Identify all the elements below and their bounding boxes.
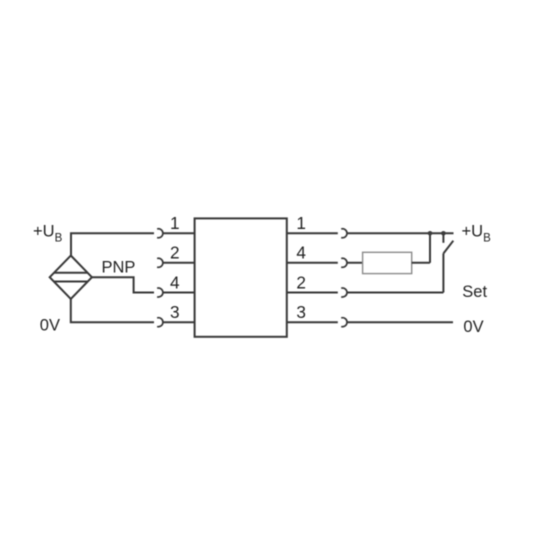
wire pin2 to Set xyxy=(347,292,444,294)
wire pin3 to 0V right xyxy=(347,321,453,323)
switch lever S1 xyxy=(443,241,453,254)
connector socket pin4 right xyxy=(341,258,347,267)
wire pin1 to +UB right xyxy=(347,232,454,234)
svg-text:3: 3 xyxy=(296,302,306,322)
wire PNP output to pin4 connector xyxy=(92,277,154,292)
wire connector to box pin3 xyxy=(163,321,195,323)
wire connector to box pin1 xyxy=(163,232,195,234)
connector socket pin3 right xyxy=(341,318,347,327)
wire connector to box pin2 xyxy=(163,262,195,264)
connector socket pin1 right xyxy=(341,229,347,238)
sensor symbol (diamond) xyxy=(50,256,92,299)
sensor internal chord lower xyxy=(54,281,87,283)
svg-text:0V: 0V xyxy=(40,317,60,335)
svg-text:0V: 0V xyxy=(463,318,483,336)
connector socket pin2 left xyxy=(157,258,163,267)
svg-text:1: 1 xyxy=(296,213,306,233)
svg-text:4: 4 xyxy=(296,243,306,263)
wire sensor to 0V xyxy=(71,299,154,322)
amplifier box U1 xyxy=(195,218,287,336)
wire box to connector pin2 right xyxy=(287,292,338,294)
svg-text:+UB: +UB xyxy=(462,223,492,245)
wire resistor to riser xyxy=(412,262,430,264)
svg-text:+UB: +UB xyxy=(33,223,63,245)
connector socket pin4 left xyxy=(157,288,163,297)
wire box to connector pin3 right xyxy=(287,321,338,323)
svg-text:PNP: PNP xyxy=(102,259,136,277)
wire Set riser xyxy=(442,254,444,293)
svg-text:3: 3 xyxy=(170,302,180,322)
junction dot A xyxy=(428,231,433,236)
connector socket pin1 left xyxy=(157,229,163,238)
svg-text:2: 2 xyxy=(296,272,306,292)
connector socket pin3 left xyxy=(157,318,163,327)
sensor internal chord upper xyxy=(54,272,87,274)
svg-text:1: 1 xyxy=(170,213,180,233)
switch fixed contact xyxy=(442,233,444,243)
svg-text:Set: Set xyxy=(462,283,487,301)
junction dot B xyxy=(441,231,446,236)
svg-text:4: 4 xyxy=(170,272,180,292)
wire from +UB to pin1 connector xyxy=(71,233,154,256)
resistor R1 xyxy=(363,252,412,273)
wire box to connector pin4 right xyxy=(287,262,338,264)
svg-text:2: 2 xyxy=(170,243,180,263)
wire pin4 to resistor xyxy=(347,262,363,264)
wire riser resistor to +UB line xyxy=(429,233,431,262)
wire box to connector pin1 right xyxy=(287,232,338,234)
connector socket pin2 right xyxy=(341,288,347,297)
wire connector to box pin4 xyxy=(163,292,195,294)
